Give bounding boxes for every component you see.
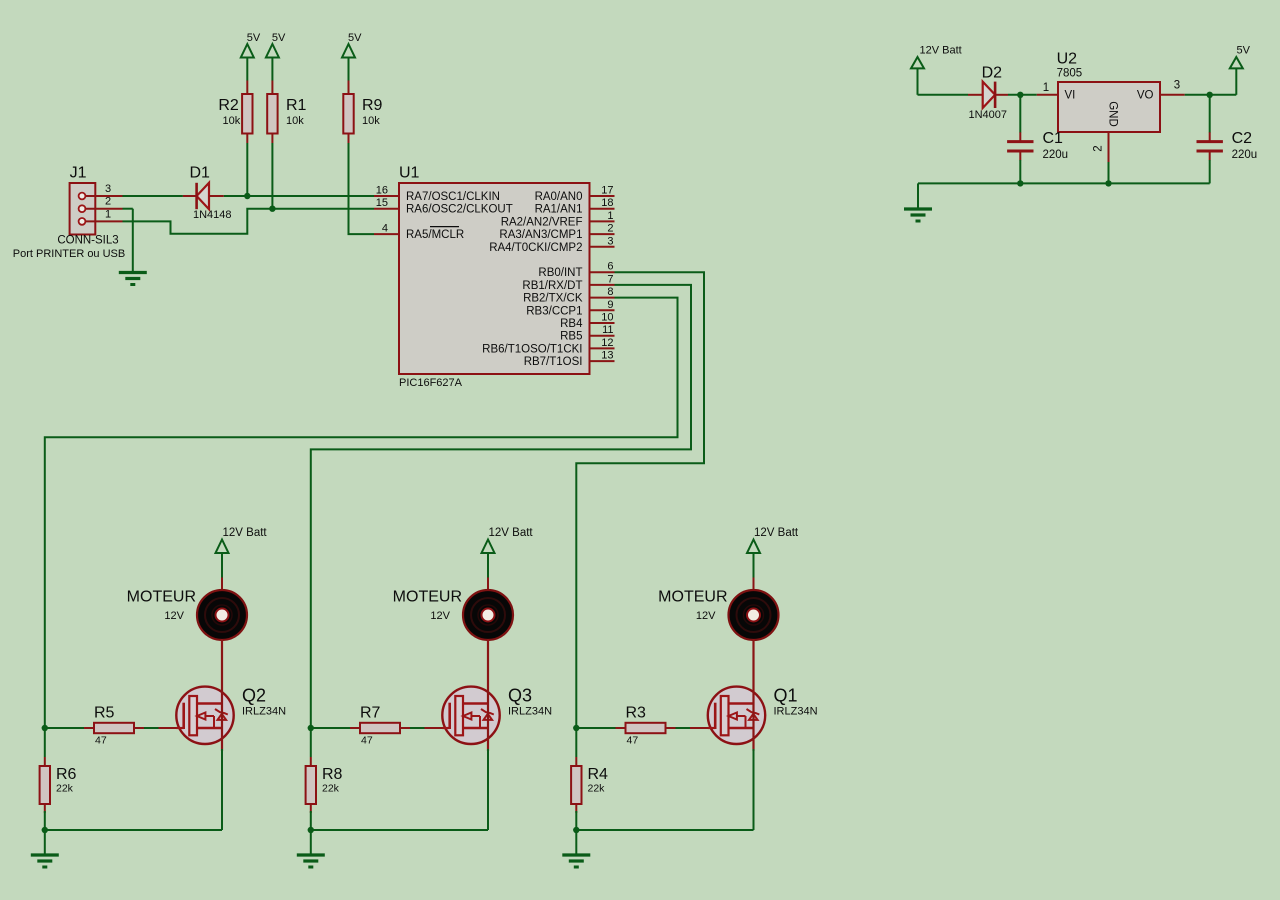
svg-text:10k: 10k — [286, 115, 304, 127]
svg-text:RB5: RB5 — [560, 331, 582, 343]
svg-text:R6: R6 — [56, 766, 77, 783]
svg-text:RA2/AN2/VREF: RA2/AN2/VREF — [501, 216, 583, 228]
svg-text:Q3: Q3 — [508, 686, 532, 706]
svg-text:1: 1 — [607, 210, 613, 222]
svg-text:12V Batt: 12V Batt — [920, 45, 962, 57]
svg-text:RA5/MCLR: RA5/MCLR — [406, 229, 464, 241]
svg-text:MOTEUR: MOTEUR — [658, 589, 727, 606]
svg-text:RB0/INT: RB0/INT — [538, 267, 582, 279]
svg-text:3: 3 — [1174, 80, 1180, 92]
svg-text:10k: 10k — [223, 115, 241, 127]
svg-text:D1: D1 — [190, 165, 211, 182]
svg-text:7805: 7805 — [1057, 68, 1083, 80]
svg-text:J1: J1 — [70, 165, 87, 182]
svg-text:R8: R8 — [322, 766, 343, 783]
svg-text:R4: R4 — [588, 766, 609, 783]
svg-text:2: 2 — [607, 223, 613, 235]
svg-text:R2: R2 — [218, 97, 239, 114]
svg-text:C2: C2 — [1232, 130, 1253, 147]
svg-text:5V: 5V — [247, 32, 261, 44]
svg-text:RA3/AN3/CMP1: RA3/AN3/CMP1 — [499, 229, 582, 241]
svg-text:RB2/TX/CK: RB2/TX/CK — [523, 293, 583, 305]
svg-text:RA4/T0CKI/CMP2: RA4/T0CKI/CMP2 — [489, 242, 582, 254]
svg-text:RB4: RB4 — [560, 318, 583, 330]
svg-text:Q2: Q2 — [242, 686, 266, 706]
svg-text:R5: R5 — [94, 705, 115, 722]
svg-text:R9: R9 — [362, 97, 383, 114]
svg-text:220u: 220u — [1232, 149, 1258, 161]
svg-text:10k: 10k — [362, 115, 380, 127]
svg-text:IRLZ34N: IRLZ34N — [242, 706, 286, 718]
svg-text:12V: 12V — [430, 610, 450, 622]
svg-text:RA1/AN1: RA1/AN1 — [535, 204, 583, 216]
svg-text:IRLZ34N: IRLZ34N — [508, 706, 552, 718]
svg-text:2: 2 — [1093, 145, 1105, 151]
svg-text:22k: 22k — [56, 783, 74, 795]
svg-text:MOTEUR: MOTEUR — [127, 589, 196, 606]
svg-text:220u: 220u — [1043, 149, 1069, 161]
svg-text:12V: 12V — [164, 610, 184, 622]
svg-text:Q1: Q1 — [774, 686, 798, 706]
svg-text:RB7/T1OSI: RB7/T1OSI — [524, 356, 583, 368]
svg-text:R7: R7 — [360, 705, 381, 722]
svg-text:8: 8 — [607, 286, 613, 298]
svg-text:R3: R3 — [626, 705, 647, 722]
svg-text:1: 1 — [1043, 82, 1049, 94]
svg-text:U2: U2 — [1057, 51, 1078, 68]
svg-text:IRLZ34N: IRLZ34N — [774, 706, 818, 718]
svg-text:13: 13 — [601, 350, 613, 362]
svg-text:12V: 12V — [696, 610, 716, 622]
svg-text:47: 47 — [95, 735, 107, 747]
svg-text:1N4148: 1N4148 — [193, 209, 232, 221]
svg-text:2: 2 — [105, 196, 111, 208]
svg-text:47: 47 — [361, 735, 373, 747]
svg-text:18: 18 — [601, 197, 613, 209]
svg-text:MOTEUR: MOTEUR — [393, 589, 462, 606]
svg-text:47: 47 — [627, 735, 639, 747]
svg-text:VI: VI — [1065, 90, 1076, 102]
svg-text:VO: VO — [1137, 90, 1154, 102]
svg-text:22k: 22k — [322, 783, 340, 795]
svg-text:PIC16F627A: PIC16F627A — [399, 377, 463, 389]
svg-text:R1: R1 — [286, 97, 307, 114]
svg-text:RB1/RX/DT: RB1/RX/DT — [522, 280, 582, 292]
svg-text:5V: 5V — [1237, 45, 1251, 57]
svg-text:D2: D2 — [982, 65, 1003, 82]
svg-text:U1: U1 — [399, 165, 420, 182]
svg-text:C1: C1 — [1043, 130, 1064, 147]
svg-text:12V Batt: 12V Batt — [223, 527, 268, 539]
svg-text:RB3/CCP1: RB3/CCP1 — [526, 305, 582, 317]
svg-text:7: 7 — [607, 273, 613, 285]
svg-text:10: 10 — [601, 312, 613, 324]
svg-text:12: 12 — [601, 337, 613, 349]
svg-text:3: 3 — [607, 235, 613, 247]
svg-text:Port PRINTER ou USB: Port PRINTER ou USB — [13, 248, 125, 260]
svg-text:3: 3 — [105, 183, 111, 195]
svg-text:15: 15 — [376, 197, 388, 209]
svg-text:9: 9 — [607, 299, 613, 311]
svg-text:5V: 5V — [272, 32, 286, 44]
svg-text:RA6/OSC2/CLKOUT: RA6/OSC2/CLKOUT — [406, 204, 513, 216]
svg-text:12V Batt: 12V Batt — [489, 527, 534, 539]
svg-text:4: 4 — [382, 223, 388, 235]
svg-text:RA0/AN0: RA0/AN0 — [535, 191, 583, 203]
svg-text:5V: 5V — [348, 32, 362, 44]
svg-text:11: 11 — [602, 324, 613, 336]
svg-text:16: 16 — [376, 185, 388, 197]
svg-text:RA7/OSC1/CLKIN: RA7/OSC1/CLKIN — [406, 191, 500, 203]
svg-text:12V Batt: 12V Batt — [754, 527, 799, 539]
svg-text:1N4007: 1N4007 — [969, 109, 1008, 121]
svg-text:RB6/T1OSO/T1CKI: RB6/T1OSO/T1CKI — [482, 343, 582, 355]
svg-text:6: 6 — [607, 261, 613, 273]
svg-text:CONN-SIL3: CONN-SIL3 — [57, 235, 118, 247]
svg-text:1: 1 — [105, 208, 111, 220]
svg-text:22k: 22k — [588, 783, 606, 795]
svg-text:GND: GND — [1107, 101, 1119, 127]
svg-text:17: 17 — [601, 185, 613, 197]
